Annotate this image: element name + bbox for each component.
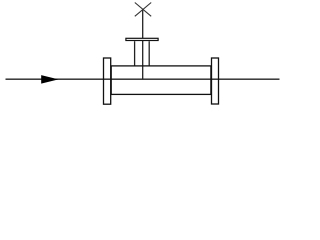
X cap diagonal 2 — [135, 3, 151, 17]
neck left line — [134, 41, 136, 66]
X cap diagonal 1 — [135, 3, 151, 17]
left flange — [104, 58, 111, 104]
right flange — [212, 58, 219, 104]
neck right line — [148, 41, 150, 66]
top bar — [126, 38, 158, 40]
body rectangle — [111, 66, 211, 95]
arrow flow direction — [41, 75, 58, 84]
wire flow line — [6, 78, 280, 80]
stem vertical line — [142, 9, 144, 79]
